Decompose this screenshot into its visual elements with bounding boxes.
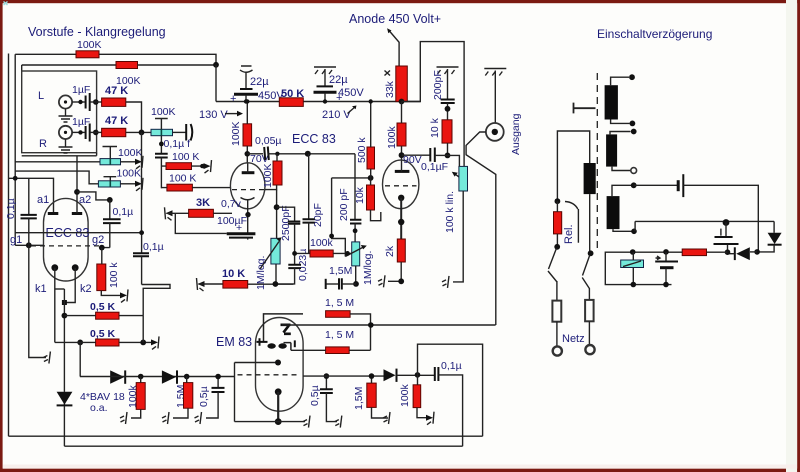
svg-text:130 V: 130 V	[199, 109, 228, 121]
svg-text:0,5 K: 0,5 K	[90, 328, 116, 340]
svg-text:100K: 100K	[151, 106, 176, 118]
svg-text:L: L	[38, 90, 44, 102]
svg-text:100K: 100K	[77, 39, 102, 51]
resistor 100K top2	[116, 62, 138, 69]
wire row pot1	[15, 161, 100, 163]
ground jack L	[65, 109, 67, 116]
border right	[786, 0, 797, 472]
chassis output	[484, 69, 506, 76]
wire gate row	[635, 221, 774, 231]
chassis 200pF	[437, 67, 459, 74]
pot wiper chain down	[160, 136, 162, 154]
wire anode feed	[389, 31, 399, 67]
EM83 target display	[264, 314, 304, 342]
node feedback row right	[345, 251, 350, 256]
svg-text:100K: 100K	[230, 121, 242, 146]
switch S2	[583, 255, 590, 276]
wire row to a2	[22, 153, 97, 156]
wire pot wiper arrow	[455, 174, 460, 177]
svg-text:0,5µ: 0,5µ	[198, 386, 210, 407]
x mark	[385, 71, 391, 76]
relay actuator hook	[565, 202, 578, 243]
svg-text:k2: k2	[80, 283, 92, 295]
svg-text:22µ: 22µ	[250, 76, 269, 88]
svg-text:+: +	[230, 93, 236, 105]
node 0,5K row2 left	[77, 340, 83, 346]
node cathode V2	[245, 212, 250, 217]
svg-text:100K: 100K	[262, 163, 274, 188]
wire pot bottom to ground	[453, 191, 463, 282]
relay coil bottom to switch S2	[589, 194, 591, 253]
winding W1	[605, 85, 618, 119]
cathode arc V2	[241, 198, 255, 200]
svg-text:0,5µ: 0,5µ	[309, 385, 321, 406]
node g2 coupling	[107, 197, 113, 203]
diode D2	[162, 370, 176, 383]
resistor 10 K bottom row	[197, 278, 205, 291]
input shield box	[22, 71, 97, 153]
wire left feedback vertical A	[8, 54, 10, 437]
wire rail to delay box	[402, 42, 465, 167]
terminal Netz N	[585, 345, 594, 354]
chassis cap2	[314, 67, 336, 74]
diode D3	[384, 369, 396, 381]
wire pot2 right to ground	[120, 183, 136, 185]
capacitor supply	[634, 184, 677, 186]
cathode dot k2	[72, 264, 79, 271]
wire diode chain vertical	[63, 289, 65, 392]
rail 210V wire	[216, 101, 420, 103]
wire rail-to-pot top	[448, 155, 460, 166]
node 0,5K row1	[62, 313, 68, 319]
diode D5 down	[773, 221, 775, 232]
wire pot bottom	[355, 266, 357, 284]
svg-text:Netz: Netz	[562, 333, 585, 345]
svg-text:100k: 100k	[399, 383, 411, 407]
primary stub	[574, 103, 596, 114]
svg-text:100k: 100k	[386, 125, 398, 149]
wire a2 to pot2 node	[77, 192, 110, 200]
node grid network	[274, 204, 280, 210]
wire 47K L to R row	[126, 102, 142, 132]
wire pot1 right to ground	[121, 161, 137, 163]
wire bottom bus 2	[64, 445, 462, 447]
jack Ausgang	[486, 123, 504, 141]
wire a2 stem vertical	[76, 156, 78, 192]
svg-text:100 K: 100 K	[169, 173, 196, 185]
wire k1 stem	[54, 268, 56, 343]
svg-text:33k: 33k	[384, 80, 396, 98]
wire pot to output cap	[173, 131, 187, 133]
anode plate V2	[242, 171, 255, 174]
svg-text:10k: 10k	[354, 186, 366, 204]
svg-text:200 pF: 200 pF	[338, 188, 350, 221]
scan artifact	[4, 2, 8, 6]
ground jack R	[65, 139, 67, 147]
svg-text:1µF: 1µF	[72, 84, 90, 96]
svg-text:1,5M: 1,5M	[353, 387, 365, 410]
svg-text:2k: 2k	[384, 245, 396, 257]
grid dashed V3	[385, 185, 417, 187]
svg-text:47 K: 47 K	[105, 115, 128, 127]
svg-text:R: R	[39, 138, 47, 150]
svg-text:1µF: 1µF	[72, 116, 90, 128]
svg-text:0,1µ: 0,1µ	[441, 360, 462, 372]
svg-text:0,1µF: 0,1µF	[421, 161, 448, 173]
svg-text:1, 5 M: 1, 5 M	[325, 297, 354, 309]
jack L	[59, 95, 72, 108]
cathode dot k1	[51, 264, 58, 271]
wire to volume pot	[126, 131, 151, 133]
fuse F1	[552, 301, 561, 322]
anode a1 plate	[48, 212, 59, 215]
winding W3	[607, 196, 620, 229]
wire top bus 1	[15, 53, 76, 55]
wire diode row	[80, 376, 235, 378]
svg-text:10 k: 10 k	[429, 117, 441, 138]
svg-text:g2: g2	[92, 234, 104, 246]
svg-text:g1: g1	[10, 234, 22, 246]
svg-text:500 k: 500 k	[356, 137, 368, 163]
svg-text:3K: 3K	[196, 197, 210, 209]
svg-text:EM 83: EM 83	[216, 335, 252, 349]
svg-text:0,05µ: 0,05µ	[255, 135, 282, 147]
grid dashed line V1	[31, 245, 100, 247]
grid dashed V2	[232, 189, 264, 191]
mosfet Q1	[723, 219, 730, 226]
svg-text:10 K: 10 K	[222, 268, 245, 280]
border bottom	[0, 469, 800, 472]
node box edge L	[93, 99, 99, 105]
wiper arrow 1M pot	[345, 248, 362, 257]
svg-text:a2: a2	[79, 194, 91, 206]
terminal Netz L	[553, 346, 562, 355]
svg-text:+: +	[336, 92, 342, 104]
svg-text:22µ: 22µ	[329, 74, 348, 86]
tube V1 envelope	[44, 198, 89, 281]
wire down to rail	[215, 65, 217, 102]
diode D0 to bottom loop	[63, 392, 65, 405]
svg-text:0,1µ: 0,1µ	[5, 198, 17, 219]
svg-text:0,7v: 0,7v	[221, 198, 242, 210]
wire jack R to cap	[72, 131, 85, 133]
svg-text:100K: 100K	[118, 147, 143, 159]
relay contact box	[621, 260, 644, 268]
wire left vertical B	[14, 54, 16, 245]
border left	[0, 0, 3, 472]
EM83 grid wire in	[235, 362, 279, 364]
wire grid hook	[332, 178, 346, 257]
wire top bus 2	[22, 65, 116, 71]
resistor 100K top1	[76, 51, 99, 58]
svg-text:0,5 K: 0,5 K	[90, 301, 116, 313]
jack R	[59, 126, 72, 139]
wire k-row down to diode row	[79, 342, 81, 376]
tube V2 envelope	[230, 163, 265, 209]
svg-text:100k: 100k	[310, 237, 334, 249]
svg-text:1M/log.: 1M/log.	[362, 251, 374, 285]
wire jack L to cap	[72, 101, 85, 103]
anode plate V3	[395, 170, 410, 173]
wire grid row	[332, 177, 371, 179]
svg-text:1, 5 M: 1, 5 M	[325, 329, 354, 341]
wire g1 ground chain	[29, 245, 46, 357]
diode D4 left	[750, 251, 757, 253]
svg-text:k1: k1	[35, 283, 47, 295]
resistor relay series	[554, 212, 562, 234]
border top	[0, 0, 800, 3]
svg-text:100 K: 100 K	[172, 151, 199, 163]
tube EM83 envelope	[256, 318, 304, 412]
svg-text:a1: a1	[37, 194, 49, 206]
wire	[99, 54, 216, 65]
node box edge R	[93, 130, 99, 136]
capacitor timing	[665, 252, 667, 262]
svg-text:100K: 100K	[117, 168, 142, 180]
wire EM83 row right	[303, 375, 384, 377]
svg-text:Einschaltverzögerung: Einschaltverzögerung	[597, 27, 712, 41]
wire from input node down	[15, 132, 141, 232]
svg-text:Anode 450 Volt+: Anode 450 Volt+	[349, 12, 441, 26]
svg-text:1,5M: 1,5M	[329, 265, 352, 277]
wire a2 stem	[76, 192, 78, 214]
wire 0,05u to 500k/10k node	[354, 154, 356, 220]
wire S-link to 0,1u cap	[142, 285, 170, 316]
wire jack feedback horiz	[282, 324, 496, 326]
svg-text:47 K: 47 K	[105, 85, 128, 97]
switch S1	[554, 244, 560, 250]
wire g1	[15, 244, 43, 246]
EM83 cathode	[275, 388, 282, 395]
svg-text:100µF: 100µF	[217, 215, 247, 227]
open terminal	[631, 168, 637, 174]
resistor delay	[707, 251, 728, 253]
resistor 100K dropper	[243, 124, 252, 146]
svg-text:Ausgang: Ausgang	[510, 113, 522, 155]
svg-text:100 k lin.: 100 k lin.	[444, 191, 456, 233]
cathode V3	[398, 195, 404, 201]
tube V3 envelope	[383, 160, 419, 209]
svg-text:200pF: 200pF	[432, 70, 444, 100]
svg-text:+: +	[236, 222, 242, 234]
node feedback row left	[292, 251, 297, 256]
svg-text:210 V: 210 V	[322, 109, 351, 121]
svg-text:0,1µ: 0,1µ	[113, 206, 134, 218]
wire feedback top loop	[418, 344, 483, 436]
anode a2 plate	[72, 212, 82, 215]
wire bottom bus 1	[9, 435, 483, 437]
svg-text:Vorstufe - Klangregelung: Vorstufe - Klangregelung	[28, 25, 166, 39]
diode D1	[110, 370, 124, 383]
svg-text:Rel.: Rel.	[563, 224, 575, 244]
node B-178	[13, 176, 18, 181]
EM83 grid dashes	[238, 374, 300, 376]
wire k1 branch	[55, 288, 65, 290]
svg-text:ECC 83: ECC 83	[292, 132, 336, 146]
chassis cap1	[240, 66, 253, 72]
svg-text:0,1µ: 0,1µ	[143, 241, 164, 253]
node bus junction	[213, 62, 219, 68]
wire	[138, 64, 217, 66]
svg-text:100 k: 100 k	[108, 262, 120, 288]
transformer core dashed	[596, 73, 598, 252]
svg-text:o.a.: o.a.	[90, 402, 108, 414]
wire jack left + diagonal	[466, 132, 496, 325]
relay coil	[584, 163, 596, 194]
fuse F2	[585, 300, 594, 321]
wire k2 stem	[64, 268, 75, 303]
wire row lower feed	[15, 171, 98, 184]
wire feedback branch to g1 cap	[9, 178, 54, 213]
winding W2	[606, 134, 617, 166]
